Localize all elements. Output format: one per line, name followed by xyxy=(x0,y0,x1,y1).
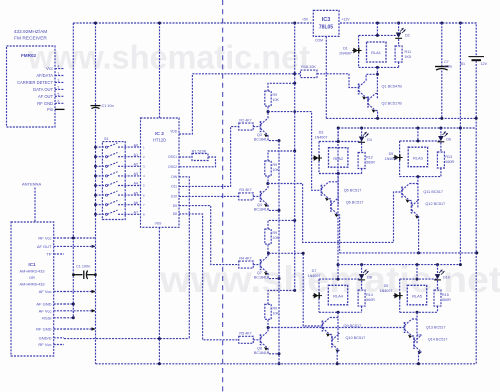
wire RLA5 coil feed xyxy=(416,265,418,280)
svg-text:5: 5 xyxy=(58,92,60,96)
svg-text:RLA2: RLA2 xyxy=(333,156,343,161)
svg-text:IC1: IC1 xyxy=(28,262,36,267)
svg-text:AF OUT: AF OUT xyxy=(37,244,52,249)
svg-text:BC184L: BC184L xyxy=(254,276,267,280)
resistor R4 4K7 base xyxy=(239,261,254,268)
svg-text:COM: COM xyxy=(315,39,323,43)
IC2 DIN wire down to data bus from IC1 xyxy=(179,177,189,339)
wire stage3 collector to RLA4 base xyxy=(267,252,270,255)
led D8 branch xyxy=(361,265,363,274)
svg-text:Q11 BC517: Q11 BC517 xyxy=(423,190,443,194)
+5V distribution row y=74 xyxy=(192,73,300,75)
antenna wire xyxy=(34,188,36,223)
relay coil RLA2 xyxy=(329,148,348,168)
+5V vertical x=294 xyxy=(294,23,296,290)
switch S1-3 xyxy=(94,165,97,168)
svg-text:R15: R15 xyxy=(442,293,449,297)
svg-text:DIN: DIN xyxy=(171,175,177,179)
transistor Q2 BC517B xyxy=(367,97,369,108)
transistor Q8 BC184L xyxy=(260,334,262,345)
IC3 regulator 78L05 box xyxy=(313,10,339,36)
switch S1-6 xyxy=(94,194,97,197)
svg-text:R13: R13 xyxy=(445,155,452,159)
svg-text:RLA4: RLA4 xyxy=(333,294,344,299)
wire +V left vertical x=73 xyxy=(72,23,74,318)
svg-text:D8: D8 xyxy=(367,276,372,280)
wire vertical x=95 xyxy=(95,23,97,364)
collector resistor stage 1 xyxy=(267,106,269,118)
switch S1-7 xyxy=(94,203,97,206)
svg-text:RSSI: RSSI xyxy=(42,315,51,320)
wire LED branch RLA1 xyxy=(398,23,400,31)
collector resistor stage 3 xyxy=(267,244,269,256)
svg-text:Pin: Pin xyxy=(47,107,54,112)
svg-text:A2: A2 xyxy=(134,163,139,167)
svg-text:3: 3 xyxy=(58,78,60,82)
wire Q2 collector xyxy=(376,93,378,95)
svg-text:CARRIER DETECT: CARRIER DETECT xyxy=(17,80,53,85)
svg-text:IC 2: IC 2 xyxy=(155,131,164,137)
wire RLA2 emitter down xyxy=(338,215,339,253)
svg-text:D9: D9 xyxy=(384,284,389,288)
IC2 D9 output wire to stage2 xyxy=(179,195,239,197)
svg-text:FM RECEIVER: FM RECEIVER xyxy=(14,36,47,42)
switch S1-1 xyxy=(94,146,97,149)
svg-text:A6: A6 xyxy=(134,201,139,205)
collector resistor stage 4 xyxy=(267,319,269,331)
IC2 D8 output wire down to stage3 xyxy=(179,206,239,265)
wire stage2 collector to RLA3 base xyxy=(266,182,269,185)
svg-text:R2 4K7: R2 4K7 xyxy=(239,118,251,122)
svg-text:BC184L: BC184L xyxy=(254,351,267,355)
svg-text:1K5: 1K5 xyxy=(405,55,412,59)
supply row y=128 for RLA2/RLA3 xyxy=(338,127,476,129)
RLA2 snubber loop xyxy=(319,141,362,143)
page fold divider xyxy=(222,0,224,392)
relay coil RLA5 xyxy=(407,285,426,305)
svg-text:D3: D3 xyxy=(319,131,324,135)
wire stage1 collector to RLA2 base xyxy=(267,110,270,113)
svg-text:R12: R12 xyxy=(366,156,373,160)
svg-text:Q2 BC517B: Q2 BC517B xyxy=(382,102,403,106)
wire RLA5 coil bottom to collectors xyxy=(416,312,418,343)
diode D5 1N4007 xyxy=(393,157,402,159)
svg-text:560R: 560R xyxy=(366,161,375,165)
resistor R3 4K7 base xyxy=(239,193,254,200)
svg-text:R9: R9 xyxy=(273,163,278,167)
svg-text:D11: D11 xyxy=(171,185,177,189)
wire RLA4 coil bottom to collectors xyxy=(337,312,339,342)
svg-text:560R: 560R xyxy=(445,160,454,164)
wire RLA1 coil bottom to Q1 collector xyxy=(376,67,378,99)
svg-text:R14: R14 xyxy=(366,293,373,297)
svg-text:1N4007: 1N4007 xyxy=(385,157,398,161)
svg-text:R10 10K: R10 10K xyxy=(301,65,316,69)
led D4 branch xyxy=(361,128,363,136)
DIP switch S1 box xyxy=(102,142,125,220)
svg-text:D7: D7 xyxy=(312,269,317,273)
wire data bus y=338.6 to IC2 DIN xyxy=(64,338,189,340)
svg-text:4: 4 xyxy=(58,65,60,69)
wire R10 to Q1 base xyxy=(317,74,359,88)
wire Q1 collector xyxy=(366,74,377,80)
svg-text:Q13 BC517: Q13 BC517 xyxy=(426,326,446,330)
transistor Q9 xyxy=(321,321,323,332)
switch S1-5 xyxy=(94,184,97,187)
svg-text:AM-HRR6-433: AM-HRR6-433 xyxy=(20,283,45,287)
switch S1-4 xyxy=(94,175,97,178)
svg-text:D2: D2 xyxy=(405,34,410,38)
wire Q1 emitter to Q2 base xyxy=(366,98,368,102)
svg-text:A4: A4 xyxy=(134,182,139,186)
top supply rail left of IC3 xyxy=(73,22,311,24)
resistor R11 xyxy=(395,46,402,62)
wire stage2 collector top xyxy=(268,151,295,161)
darlington emitter return bus y=253 xyxy=(340,252,477,254)
svg-text:AF/DATA: AF/DATA xyxy=(36,73,53,78)
svg-text:12V: 12V xyxy=(481,62,488,66)
svg-text:D8: D8 xyxy=(173,212,177,216)
transistor Q10 xyxy=(330,335,332,337)
wire stage4 collector top xyxy=(268,290,295,304)
wire RLA4 emitter down xyxy=(337,351,339,364)
transistor Q4 BC184L xyxy=(260,191,262,202)
collector resistor stage 2 xyxy=(267,176,269,188)
svg-text:ANTENNA: ANTENNA xyxy=(22,182,41,187)
svg-text:Q3: Q3 xyxy=(257,133,262,137)
transistor Q5 xyxy=(320,185,322,196)
diode D3 1N4007 xyxy=(313,157,322,159)
wire stage 1 emitter xyxy=(268,135,279,141)
relay coil RLA4 xyxy=(328,285,347,305)
svg-text:Q7: Q7 xyxy=(257,271,262,275)
svg-text:RF Vcc: RF Vcc xyxy=(38,236,51,241)
wire Q2 emitter down xyxy=(376,111,378,119)
wire stage4 collector to RLA5 base xyxy=(267,326,270,329)
switch S1-2 xyxy=(94,155,97,158)
svg-text:R1 510K: R1 510K xyxy=(192,150,207,154)
led D10 branch xyxy=(437,265,439,274)
RLA1 snubber loop xyxy=(359,34,399,36)
wire xyxy=(64,328,96,330)
led D6 branch xyxy=(440,128,442,136)
junction x=73 y=238 xyxy=(72,237,75,240)
svg-text:6: 6 xyxy=(58,99,60,103)
svg-text:www.shematic.net: www.shematic.net xyxy=(27,39,310,76)
diode D7 1N4007 xyxy=(313,295,322,297)
IC2 D11 output wire down to stage4 xyxy=(179,214,239,340)
svg-text:RLA3: RLA3 xyxy=(413,156,423,161)
resistor R15 560R xyxy=(434,290,441,306)
vertical feed x=338 down to lower cells xyxy=(337,128,339,279)
wire stage 2 emitter xyxy=(268,205,279,211)
svg-text:AM-HRR3-433: AM-HRR3-433 xyxy=(20,270,45,274)
svg-text:D10: D10 xyxy=(171,195,177,199)
resistor R2 4K7 base xyxy=(239,123,254,130)
diode D1 1N4007 xyxy=(352,50,361,52)
resistor R12 560R xyxy=(358,153,365,169)
transistor Q11 xyxy=(401,187,403,198)
svg-text:Q12 BC517: Q12 BC517 xyxy=(425,202,445,206)
IC2 D10 output wire up to stage1 xyxy=(179,127,239,187)
svg-text:FMR02: FMR02 xyxy=(21,53,37,58)
svg-text:A0: A0 xyxy=(134,143,139,147)
receiver module TX1 box xyxy=(7,46,56,127)
svg-text:DATA OUT: DATA OUT xyxy=(33,87,53,92)
svg-text:OSC1: OSC1 xyxy=(168,155,177,159)
svg-text:D4: D4 xyxy=(367,138,372,142)
resistor R10 10K xyxy=(300,70,317,78)
svg-text:S1: S1 xyxy=(104,137,109,141)
transistor Q13 xyxy=(404,322,406,333)
ground rail y=118.4 xyxy=(326,117,476,119)
wire stage1 collector top xyxy=(268,83,295,91)
svg-text:A3: A3 xyxy=(134,172,139,176)
RLA4 snubber loop xyxy=(319,278,362,280)
svg-text:R9: R9 xyxy=(273,231,278,235)
wire IC1 pin2 xyxy=(64,245,96,247)
svg-text:Q8: Q8 xyxy=(257,346,262,350)
svg-text:A7: A7 xyxy=(134,211,139,215)
svg-text:1N4007: 1N4007 xyxy=(339,52,352,56)
svg-text:VSS: VSS xyxy=(155,222,163,226)
svg-text:Q14 BC517: Q14 BC517 xyxy=(428,338,448,342)
transistor Q12 xyxy=(410,201,412,203)
svg-text:R3 4K7: R3 4K7 xyxy=(239,188,251,192)
svg-text:GND/D: GND/D xyxy=(39,335,52,340)
relay coil RLA1 xyxy=(367,42,387,62)
transistor Q1 BC547B xyxy=(358,84,360,95)
svg-text:C1 100n: C1 100n xyxy=(76,265,90,269)
svg-text:D5: D5 xyxy=(389,152,394,156)
svg-text:RF Vcc: RF Vcc xyxy=(38,342,51,347)
svg-text:A5: A5 xyxy=(134,191,139,195)
wire IC1 AF Vcc pin xyxy=(64,291,96,293)
svg-text:Q1 BC547B: Q1 BC547B xyxy=(382,85,403,89)
junction x=294 y=73 xyxy=(293,72,296,75)
svg-text:78L05: 78L05 xyxy=(319,25,333,31)
bottom ground bus xyxy=(96,363,477,365)
svg-text:D9: D9 xyxy=(173,204,177,208)
svg-text:BC184L: BC184L xyxy=(254,138,267,142)
resistor R13 560R xyxy=(437,152,444,168)
svg-text:Q5 BC517: Q5 BC517 xyxy=(344,188,362,192)
svg-text:D1: D1 xyxy=(343,47,348,51)
svg-text:560R: 560R xyxy=(442,298,451,302)
svg-text:+5V: +5V xyxy=(302,18,309,22)
wire RLA3 coil bottom to collectors xyxy=(417,177,419,208)
svg-text:R4 4K7: R4 4K7 xyxy=(239,256,251,260)
svg-text:2: 2 xyxy=(58,85,60,89)
svg-text:BC184L: BC184L xyxy=(254,207,267,211)
svg-text:D10: D10 xyxy=(443,276,450,280)
led D2 xyxy=(396,33,402,38)
capacitor C2 100n (black) xyxy=(73,274,82,276)
wire RLA2 coil bottom to collectors xyxy=(337,174,339,207)
svg-text:1N4007: 1N4007 xyxy=(380,289,393,293)
svg-text:R9: R9 xyxy=(273,93,278,97)
wire stage3 collector top xyxy=(268,220,295,229)
svg-text:OSC2: OSC2 xyxy=(168,165,177,169)
wire RLA5 emitter down xyxy=(419,352,422,364)
svg-text:Q9 BC517: Q9 BC517 xyxy=(344,324,362,328)
IC1 receiver box xyxy=(11,222,54,356)
svg-text:C1 10n: C1 10n xyxy=(102,104,114,108)
svg-text:AF Vcc: AF Vcc xyxy=(39,308,52,313)
svg-text:RLA1: RLA1 xyxy=(371,50,381,55)
svg-text:RF GND: RF GND xyxy=(37,101,53,106)
svg-text:10K: 10K xyxy=(273,98,280,102)
wire osc loop xyxy=(179,157,216,167)
svg-text:560R: 560R xyxy=(366,298,375,302)
long vertical x=460 down to lower supply row xyxy=(459,23,461,265)
junction top rail x=294 xyxy=(293,22,296,25)
wire RLA2 coil feed xyxy=(337,128,339,142)
emitter ground vertical x=279 xyxy=(278,141,280,364)
battery B1 12V xyxy=(469,56,485,58)
IC3 COM pin down to ground rail xyxy=(325,36,327,118)
svg-text:TP: TP xyxy=(46,252,51,257)
resistor R1 oscillator xyxy=(179,156,192,158)
svg-text:+12V: +12V xyxy=(342,18,351,22)
svg-text:R9: R9 xyxy=(273,306,278,310)
wire RLA1 feed xyxy=(376,23,378,35)
resistor R5 4K7 base xyxy=(239,336,254,343)
svg-text:470u: 470u xyxy=(444,65,452,69)
transistor Q7 BC184L xyxy=(260,259,262,270)
wire IC1 AF GND pin xyxy=(64,303,73,305)
wire vertical x=159 to IC2 xyxy=(159,23,161,118)
junction y=338.6 x=159 xyxy=(158,337,161,340)
svg-text:AF GND: AF GND xyxy=(36,302,51,307)
svg-text:Vcc: Vcc xyxy=(46,66,53,71)
svg-text:VDD: VDD xyxy=(170,130,177,134)
junction top rail x=159 xyxy=(158,22,161,25)
svg-text:RF GND: RF GND xyxy=(36,327,51,332)
top rail right of IC3 xyxy=(340,23,476,56)
capacitor C7 470u xyxy=(441,23,443,66)
svg-text:433.92MHZ/AM: 433.92MHZ/AM xyxy=(14,29,48,35)
svg-text:1N4007: 1N4007 xyxy=(315,136,328,140)
supply row y=264.6 for RLA4/RLA5 xyxy=(338,264,460,266)
wire xyxy=(64,310,96,312)
svg-text:1N4007: 1N4007 xyxy=(308,274,321,278)
svg-text:HT12D: HT12D xyxy=(153,138,166,143)
svg-text:OR: OR xyxy=(29,276,35,280)
wire RLA3 emitter down xyxy=(418,217,420,253)
switch S1-8 xyxy=(94,213,97,216)
svg-text:D6: D6 xyxy=(446,138,451,142)
IC2 HT12D box xyxy=(141,118,180,227)
wire stage 4 emitter xyxy=(268,348,279,354)
IC2 VDD pin wire to +5V row xyxy=(179,74,192,134)
wire xyxy=(64,317,73,319)
svg-text:A1: A1 xyxy=(134,153,139,157)
svg-text:RLA5: RLA5 xyxy=(412,294,422,299)
svg-text:Q6 BC517: Q6 BC517 xyxy=(346,200,364,204)
svg-text:B1: B1 xyxy=(460,62,465,66)
wire battery minus down xyxy=(475,61,477,365)
svg-text:C7: C7 xyxy=(444,60,449,64)
RLA3 snubber loop xyxy=(400,140,441,142)
relay coil RLA3 xyxy=(408,147,427,167)
svg-text:Q4: Q4 xyxy=(257,203,262,207)
svg-text:AF Vcc: AF Vcc xyxy=(39,289,52,294)
svg-text:1: 1 xyxy=(58,72,60,76)
svg-text:R11: R11 xyxy=(405,50,412,54)
RLA5 snubber loop xyxy=(400,278,438,280)
transistor Q6 xyxy=(329,199,331,201)
capacitor C1 10n xyxy=(91,105,101,107)
resistor R14 560R xyxy=(358,290,365,306)
svg-text:AF OUT: AF OUT xyxy=(38,94,54,99)
svg-text:IC3: IC3 xyxy=(322,17,331,23)
transistor Q3 BC184L xyxy=(260,121,262,132)
wire RLA3 coil feed xyxy=(417,128,419,141)
diode D9 1N4007 xyxy=(393,295,402,297)
transistor Q14 xyxy=(412,336,414,338)
wire stage 3 emitter xyxy=(268,273,279,279)
svg-text:R5 4K7: R5 4K7 xyxy=(239,332,251,336)
svg-text:Q10 BC517: Q10 BC517 xyxy=(346,336,366,340)
IC2 VSS wire down xyxy=(158,227,160,363)
junction top rail x=95 xyxy=(94,22,97,25)
wire IC1 pin1 to node xyxy=(64,237,96,239)
